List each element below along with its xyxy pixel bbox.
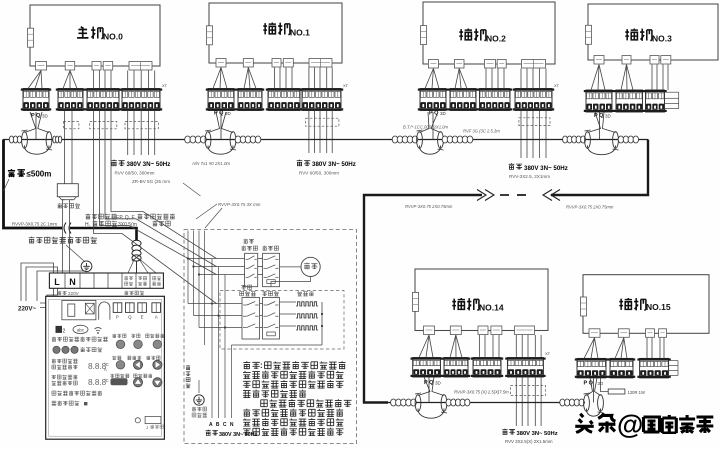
label grounding note <box>29 237 35 243</box>
label power main 380V <box>111 160 117 166</box>
contactor KM1 pump <box>263 253 280 286</box>
terminal block XT no1-3 <box>266 89 302 111</box>
panel text line status <box>52 337 56 342</box>
unit aux NO.2 bottom connectors <box>428 60 438 69</box>
svg-text:abc: abc <box>77 328 85 333</box>
dashed enclosure heater inner <box>220 291 344 350</box>
label power no2 380V <box>509 163 515 169</box>
unit aux NO.1 outline <box>209 3 342 63</box>
label switch (heater) <box>241 285 246 289</box>
dashed CT rect no14 block4 <box>511 385 546 395</box>
svg-text:RVVP-3X0.75 2C 1mm: RVVP-3X0.75 2C 1mm <box>12 222 57 227</box>
drip loop no15 rising to block1 <box>593 378 595 403</box>
svg-text:NO.15: NO.15 <box>646 302 671 312</box>
terminal block XT main-4 (power) <box>120 89 162 111</box>
svg-text:A/N 7x1 #0 2X1.0m: A/N 7x1 #0 2X1.0m <box>191 161 230 166</box>
contactor K1 manual switch pump <box>245 253 258 286</box>
terminal block XT no2-2 <box>448 89 478 111</box>
unit aux NO.1 title <box>263 23 276 35</box>
unit aux NO.3 bottom connectors <box>594 56 604 65</box>
dashed CT rect no2 block4 <box>519 118 550 126</box>
dashed CT rect main block4 <box>125 122 158 129</box>
panel terminal squares P Q E A <box>113 303 122 313</box>
svg-text:A B C N: A B C N <box>209 422 234 428</box>
svg-text:ZR-BV 5G (25 mm: ZR-BV 5G (25 mm <box>132 179 170 184</box>
svg-text:380V 3N~ 50Hz: 380V 3N~ 50Hz <box>219 432 258 438</box>
comm bus top segment <box>3 139 648 141</box>
terminal block XT no1-1 <box>206 89 236 111</box>
unit aux NO.15 outline <box>583 275 709 334</box>
water pump motor circle <box>301 257 320 276</box>
unit aux NO.15 title <box>619 298 632 310</box>
bus break chevrons left <box>477 190 494 201</box>
svg-text:L: L <box>54 277 60 287</box>
dashed CT rect main block2 <box>64 122 79 129</box>
svg-text:P Q: P Q <box>584 381 594 387</box>
terminal block XT no3-1 <box>584 90 614 112</box>
terminal block XT main-2 (flow switch) <box>56 89 85 111</box>
label electric heater <box>297 291 302 296</box>
wires feed pump contactors <box>188 258 245 260</box>
unit aux NO.3 title <box>625 29 638 41</box>
unit main NO.0 bottom connectors <box>36 62 47 71</box>
wire thick distance line left <box>4 140 63 229</box>
water flow switch box <box>57 184 78 197</box>
twisted pair cluster no1 right <box>235 136 241 143</box>
terminal block XT no14-2 <box>442 358 470 378</box>
bottom comm bus segment <box>388 402 585 404</box>
ladder lines right of no15-3 <box>669 360 678 362</box>
panel temp set pill <box>111 378 128 385</box>
svg-text:°C: °C <box>104 378 109 383</box>
terminal labels right cells <box>124 276 128 280</box>
svg-text:NO.1: NO.1 <box>290 28 310 38</box>
label strip comm signal <box>124 291 128 295</box>
svg-text:RVV 60/50, 300mm: RVV 60/50, 300mm <box>115 171 155 176</box>
wires no14 block4 power down <box>515 377 517 426</box>
panel relay box <box>62 301 96 320</box>
svg-text:3D: 3D <box>605 114 612 119</box>
wire break marks on comm line <box>62 224 69 232</box>
label power no1 380V <box>297 160 303 166</box>
unit aux NO.2 outline <box>423 2 555 64</box>
label controller-main comm spec line1 <box>86 214 91 219</box>
bus thick elbow right of NO.3 <box>551 140 648 196</box>
bus thick segment to left corner <box>364 195 482 403</box>
choke coil on comm wire <box>132 240 141 246</box>
svg-text:XT: XT <box>554 83 560 88</box>
svg-text:3D: 3D <box>42 114 49 119</box>
unit aux NO.15 bottom connectors <box>589 329 600 338</box>
fan wires no2 stubs to blocks <box>425 69 433 89</box>
svg-text:220V~: 220V~ <box>18 306 36 313</box>
svg-text:2: 2 <box>63 329 66 335</box>
wires A B C N risers <box>211 259 213 419</box>
bus break dashes <box>500 194 534 196</box>
svg-text:EP, Q, E: EP, Q, E <box>116 215 135 221</box>
panel text line remote <box>52 401 57 405</box>
svg-text:3X0.5(m: 3X0.5(m <box>118 222 137 228</box>
svg-text:RVF 3G (3C 2.5.3m: RVF 3G (3C 2.5.3m <box>463 128 500 133</box>
twisted pair cluster no14 left <box>391 399 397 406</box>
leader line distance label <box>4 179 10 191</box>
fan wires main stubs to blocks <box>28 71 41 89</box>
terminal block XT no2-4 (power) <box>513 89 554 111</box>
svg-text:NO.0: NO.0 <box>103 32 123 42</box>
label power 380V in dashed box <box>206 430 211 436</box>
panel buttons row2 with arrows <box>116 361 125 370</box>
terminal block XT no2-3 <box>477 89 512 111</box>
drip loop no2 <box>432 112 434 140</box>
ladder lines right of no3-3 <box>665 91 679 93</box>
fan wires no15 stubs to blocks <box>584 338 595 359</box>
wire bundle vertical inside dashed box <box>187 231 189 304</box>
twisted pair cluster no2 right <box>442 136 448 143</box>
panel buzzer arch <box>99 302 110 320</box>
twisted pair cluster main left <box>9 136 13 143</box>
terminal block XT no14-1 <box>411 358 443 378</box>
unit aux NO.14 bottom connectors <box>424 326 435 335</box>
dashed enclosure pump-heater <box>184 230 357 444</box>
svg-text:RVV 60/50, 300mm: RVV 60/50, 300mm <box>299 171 339 176</box>
svg-text:XT: XT <box>162 83 168 88</box>
label power no14 380V <box>502 429 507 435</box>
fan wires no1 stubs to blocks <box>213 68 221 89</box>
terminal block XT no14-3 <box>471 358 503 378</box>
junction dots heater <box>321 313 323 315</box>
svg-text:3D: 3D <box>440 111 447 116</box>
svg-text:RVVP-3X0.75 (X) 2.5(X)7.5m: RVVP-3X0.75 (X) 2.5(X)7.5m <box>454 390 509 395</box>
terminal block XT no15-3 <box>637 358 670 378</box>
svg-text:220V: 220V <box>68 291 80 296</box>
svg-text:380V 3N~ 50Hz: 380V 3N~ 50Hz <box>524 165 568 172</box>
bus break chevrons right <box>543 190 560 201</box>
wire thick comm to controller <box>70 228 137 241</box>
drip loop no14 <box>428 377 430 403</box>
twisted pair cluster no1 left <box>185 136 191 143</box>
twisted pair cluster main right <box>53 136 56 143</box>
dashed CT rect main block3 <box>90 122 117 129</box>
svg-text:B.T./*-1CC,000- 2X1.0m: B.T./*-1CC,000- 2X1.0m <box>403 125 449 130</box>
svg-text:3D: 3D <box>435 381 442 386</box>
svg-text:RVV 3X2.5(X) 2X1.5mm: RVV 3X2.5(X) 2X1.5mm <box>505 439 553 444</box>
wires heater circuit <box>188 303 242 305</box>
controller terminal strip <box>49 273 163 288</box>
panel indicator circles row <box>53 346 60 353</box>
twisted pair cluster no14 right <box>446 399 451 406</box>
terminal block XT no1-4 (power) <box>300 89 343 111</box>
fan wires no14 stubs to blocks <box>419 335 429 358</box>
unit aux NO.14 title <box>452 298 465 310</box>
drip loop main <box>35 112 37 140</box>
svg-text:NO.2: NO.2 <box>486 34 506 44</box>
terminal block XT no15-2 <box>608 358 635 378</box>
panel text line pump + 7seg <box>52 375 57 379</box>
label contactor (pump) <box>263 246 267 251</box>
heater elements <box>296 302 318 306</box>
twisted pair cluster no15 <box>560 399 565 406</box>
svg-text:380V 3N~ 50Hz: 380V 3N~ 50Hz <box>517 431 558 437</box>
svg-text:RVV-3X2.5, 2X1mm: RVV-3X2.5, 2X1mm <box>509 174 550 179</box>
unit main NO.0 outline <box>30 5 160 66</box>
svg-text:XT: XT <box>343 83 349 88</box>
controller panel outline <box>46 296 165 439</box>
svg-text:P: P <box>116 315 119 320</box>
wires main block3 to pump box <box>94 111 217 304</box>
svg-text:J: J <box>146 425 148 430</box>
panel buttons row3 up down <box>133 378 142 387</box>
drip loop no3 <box>599 112 601 140</box>
terminal block XT no3-3 <box>643 90 666 112</box>
wires no2 block4 power down <box>520 111 522 159</box>
watermark toutiao nuantongnanshe <box>575 414 593 433</box>
fan wires no3 stubs to blocks <box>591 65 599 91</box>
svg-text:120R 1W: 120R 1W <box>628 390 646 395</box>
dashed CT rect no1 block4 <box>306 118 339 126</box>
panel button labels row3 <box>110 374 114 378</box>
label manual switch (pump) <box>244 239 248 244</box>
panel text line start mode <box>52 391 56 395</box>
terminal block XT main-1 (P Q comm) <box>21 89 51 111</box>
svg-text:RVVP-3X0.75 3X mm: RVVP-3X0.75 3X mm <box>218 202 261 207</box>
panel button labels row1 <box>112 334 116 338</box>
label strip power 220V <box>57 291 61 295</box>
panel bottom indicator + label <box>135 418 140 423</box>
panel buttons row1 <box>116 340 125 349</box>
svg-text:≤500m: ≤500m <box>27 170 52 179</box>
unit aux NO.2 title <box>459 29 472 41</box>
junction dots phase taps heater <box>211 302 213 304</box>
unit main NO.0 title <box>77 27 88 38</box>
terminating resistor no15 <box>601 378 609 392</box>
terminal block XT no1-2 <box>236 89 264 111</box>
wires main block4 power down <box>127 111 129 156</box>
svg-text:XT: XT <box>545 351 551 356</box>
twisted pair cluster no3 left <box>563 136 568 143</box>
wires flow switch to controller strip <box>62 200 64 273</box>
leader to ground symbol <box>66 245 84 261</box>
svg-text:E: E <box>141 315 144 320</box>
terminal block XT no14-4 (power) <box>505 358 545 378</box>
unit aux NO.14 outline <box>415 269 548 331</box>
svg-text:NO.14: NO.14 <box>479 303 504 313</box>
ground symbol in dashed box <box>194 395 204 405</box>
svg-text:RVVP-3X0.75 2X0.75mm: RVVP-3X0.75 2X0.75mm <box>405 204 453 209</box>
svg-text:A: A <box>104 367 107 372</box>
twisted pair cluster no2 left <box>392 136 398 143</box>
svg-text:Q: Q <box>128 315 132 320</box>
terminal block XT no2-1 <box>418 89 448 111</box>
label water flow switch <box>58 203 62 208</box>
label contactor (heater) <box>262 292 267 296</box>
svg-text:H,: H, <box>85 222 90 228</box>
svg-text:RVVP-3X0.75 2X0.75mm: RVVP-3X0.75 2X0.75mm <box>566 205 614 210</box>
svg-text:380V 3N~ 50Hz: 380V 3N~ 50Hz <box>312 161 356 168</box>
terminal block XT main-3 (pump/heater out) <box>85 89 121 111</box>
label pump type vertical <box>186 365 190 370</box>
panel button labels row2 <box>112 356 116 360</box>
terminal block XT no3-2 <box>614 90 645 112</box>
svg-text:380V 3N~ 50Hz: 380V 3N~ 50Hz <box>127 161 171 168</box>
ground symbol at controller <box>81 261 92 272</box>
svg-text:@: @ <box>617 410 643 440</box>
wires main block2 to flow switch <box>64 111 66 184</box>
contactor K2 heater switch <box>242 298 260 340</box>
unit aux NO.1 bottom connectors <box>216 59 226 68</box>
wires no1 block4 power down <box>308 111 310 154</box>
unit aux NO.3 outline <box>588 4 718 60</box>
label near ground symbol <box>192 407 196 411</box>
drip loop no1 <box>220 112 222 140</box>
twisted pair cluster no3 right <box>618 136 623 143</box>
panel brand icons <box>56 326 63 333</box>
fan wires coil to strip cells <box>139 258 149 273</box>
svg-text:N: N <box>69 277 76 287</box>
terminal block XT no15-1 <box>575 358 608 378</box>
svg-text::: : <box>260 361 263 370</box>
label distance <=500m <box>8 169 15 177</box>
svg-text:P Q: P Q <box>214 111 224 117</box>
svg-text:A: A <box>155 315 158 320</box>
panel text line compressor + 7seg <box>52 359 56 363</box>
contactor KM2 heater <box>263 298 280 340</box>
svg-text:NO.3: NO.3 <box>652 34 672 44</box>
leader line from spec to wires <box>183 183 201 196</box>
